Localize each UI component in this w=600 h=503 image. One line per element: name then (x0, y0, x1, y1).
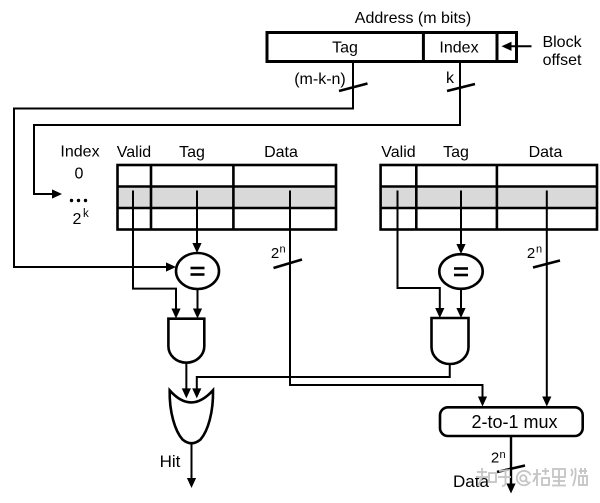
comparator = (left) (176, 253, 219, 289)
svg-text:2-to-1 mux: 2-to-1 mux (471, 412, 557, 432)
svg-text:Data: Data (529, 144, 563, 161)
svg-text:n: n (280, 244, 286, 256)
桔 (533, 468, 549, 486)
2-to-1 mux box (440, 407, 583, 436)
wire comparator output (right) (456, 289, 465, 318)
svg-text:Data: Data (264, 144, 298, 161)
bus width slash 2^n (output) (497, 466, 525, 473)
知 (476, 468, 496, 486)
or gate (170, 390, 213, 443)
svg-text:Valid: Valid (381, 144, 415, 161)
@ (517, 471, 531, 485)
watermark 知乎@桔里猫 (476, 468, 587, 486)
svg-text:offset: offset (543, 52, 582, 69)
wire comparator output (left) (193, 289, 202, 319)
wire tag right bank to comparator (456, 191, 465, 255)
bus width slash 2^n (left) (274, 260, 303, 269)
bus width slash 2^n (right) (533, 261, 560, 268)
wire right and gate output to or gate (192, 364, 450, 398)
wire data right bank to mux (542, 191, 551, 407)
svg-text:2: 2 (527, 245, 535, 262)
wire index field to row pointer (34, 62, 460, 199)
label 2^n (right) (527, 244, 542, 263)
svg-text:Tag: Tag (443, 144, 469, 161)
wire valid bit right bank to and gate (398, 191, 445, 319)
label Block offset (542, 34, 582, 69)
block offset arrow (502, 42, 532, 51)
wire valid bit left bank to and gate (133, 191, 181, 319)
and gate (left) (168, 319, 204, 363)
svg-text:Valid: Valid (117, 144, 151, 161)
left cache table (118, 165, 337, 230)
comparator = (right) (439, 254, 482, 289)
row label ... (70, 199, 87, 202)
svg-text:2: 2 (491, 450, 499, 467)
label 2^n (output) (491, 449, 506, 467)
svg-text:n: n (500, 449, 506, 461)
and gate (right) (432, 318, 469, 364)
svg-text:0: 0 (75, 166, 84, 183)
address register box (267, 33, 517, 62)
svg-text:Address (m bits): Address (m bits) (355, 10, 471, 27)
猫 (571, 468, 587, 486)
label 2^n (left) (271, 244, 286, 263)
svg-text:Tag: Tag (332, 40, 358, 57)
wire data left bank to mux (290, 191, 487, 407)
svg-text:Index: Index (60, 144, 99, 161)
row label 2^k (73, 208, 89, 228)
svg-text:n: n (536, 244, 542, 256)
right cache table (381, 165, 597, 230)
bus width slash on tag wire (339, 84, 368, 92)
svg-text:(m-k-n): (m-k-n) (294, 71, 346, 88)
wire hit output (187, 444, 196, 488)
svg-text:Data: Data (453, 472, 489, 491)
svg-text:Hit: Hit (160, 452, 181, 471)
wire and gate output to or gate (left) (182, 363, 191, 399)
wire tag field to comparator (14, 62, 353, 272)
svg-text:Index: Index (439, 40, 478, 57)
svg-text:2: 2 (271, 245, 279, 262)
svg-text:Block: Block (542, 34, 582, 51)
svg-text:Tag: Tag (179, 144, 205, 161)
svg-text:k: k (83, 208, 89, 220)
里 (552, 469, 566, 486)
wire tag left bank to comparator (192, 191, 201, 254)
wire mux data output (506, 436, 515, 494)
svg-text:2: 2 (73, 211, 82, 228)
svg-text:k: k (446, 70, 455, 87)
bus width slash on index wire (447, 84, 475, 91)
乎 (498, 470, 511, 486)
